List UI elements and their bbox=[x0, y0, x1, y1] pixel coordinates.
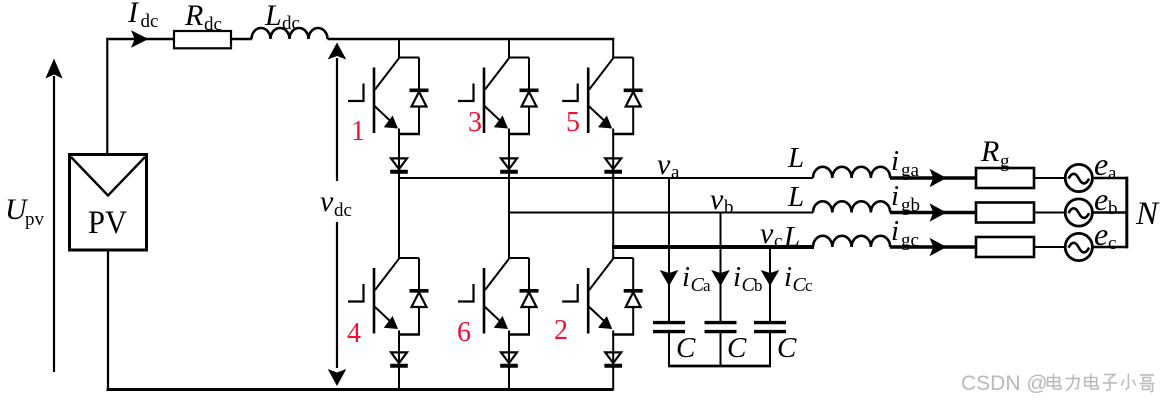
wire collector branch Q2 bbox=[612, 257, 633, 259]
wire phase a line bbox=[398, 177, 813, 179]
svg-text:PV: PV bbox=[88, 205, 127, 241]
wire collector drop Q1 bbox=[398, 38, 400, 58]
wire collector branch Q1 bbox=[398, 57, 419, 59]
wire emitter bar Q6 bbox=[508, 333, 530, 336]
wire collector branch Q5 bbox=[612, 57, 633, 59]
current arrow i_Cc bbox=[761, 270, 780, 286]
wire collector drop Q5 bbox=[612, 38, 614, 58]
wire capacitor Cc dropper bbox=[769, 247, 771, 321]
diode DS4 (series) bbox=[390, 352, 408, 365]
capacitor Ca bbox=[653, 323, 685, 366]
diode DS2 (series) bbox=[604, 352, 622, 365]
v_dc arrow upper bbox=[336, 58, 338, 181]
current arrow I_dc bbox=[131, 30, 149, 48]
svg-text:i: i bbox=[891, 180, 899, 212]
svg-text:R: R bbox=[184, 0, 203, 32]
svg-text:R: R bbox=[980, 135, 999, 168]
inductor L phase b bbox=[813, 201, 890, 212]
svg-text:dc: dc bbox=[141, 11, 159, 32]
wire neutral bus bbox=[1125, 177, 1128, 248]
PV module box bbox=[70, 155, 147, 251]
svg-text:v: v bbox=[760, 217, 774, 250]
diode D4 (anti-parallel) bbox=[410, 258, 429, 335]
transistor Q1 bbox=[348, 58, 399, 133]
wire collector drop Q2 bbox=[612, 257, 614, 258]
resistor R_dc bbox=[174, 31, 231, 48]
svg-text:i: i bbox=[891, 215, 899, 247]
wire phase column c lower bbox=[612, 331, 614, 391]
wire PV top to rail bbox=[106, 39, 108, 156]
wire emitter bar Q4 bbox=[398, 333, 420, 336]
resistor R_g phase c bbox=[976, 237, 1034, 257]
current arrow i_gb bbox=[930, 203, 947, 222]
wire phase column c upper bbox=[612, 129, 614, 259]
svg-text:e: e bbox=[1094, 146, 1108, 182]
wire phase b line bbox=[508, 212, 813, 214]
resistor R_g phase a bbox=[976, 168, 1034, 188]
U_pv arrow bbox=[53, 76, 55, 372]
svg-text:a: a bbox=[1108, 163, 1117, 184]
svg-text:dc: dc bbox=[282, 13, 300, 34]
wire source to neutral bus phase c bbox=[1092, 246, 1128, 248]
wire phase column b lower bbox=[508, 331, 510, 391]
wire top rail segment 1 bbox=[106, 38, 174, 40]
wire phase column b upper bbox=[508, 129, 510, 259]
transistor Q3 bbox=[458, 58, 509, 133]
capacitor Cb bbox=[705, 323, 737, 366]
svg-text:L: L bbox=[787, 142, 804, 174]
wire inductor to resistor phase c bbox=[890, 245, 976, 248]
wire phase column a lower bbox=[398, 331, 400, 391]
diode D5 (anti-parallel) bbox=[624, 58, 643, 135]
svg-text:pv: pv bbox=[25, 209, 45, 230]
svg-text:6: 6 bbox=[457, 317, 471, 348]
svg-text:C: C bbox=[777, 332, 797, 364]
current arrow i_gc bbox=[930, 238, 947, 257]
wire collector drop Q4 bbox=[398, 257, 400, 258]
svg-text:c: c bbox=[805, 276, 813, 295]
ac source e_a bbox=[1065, 164, 1092, 191]
inductor L phase c bbox=[813, 236, 890, 247]
svg-text:i: i bbox=[733, 261, 741, 293]
svg-text:ga: ga bbox=[901, 160, 920, 181]
svg-text:L: L bbox=[783, 221, 800, 253]
svg-text:a: a bbox=[671, 162, 680, 183]
wire inductor to resistor phase a bbox=[890, 176, 976, 179]
diode D2 (anti-parallel) bbox=[624, 258, 643, 335]
svg-text:N: N bbox=[1135, 196, 1160, 232]
svg-text:CSDN @: CSDN @ bbox=[961, 372, 1048, 395]
wire collector branch Q3 bbox=[508, 57, 529, 59]
diode DS1 (series) bbox=[390, 158, 408, 171]
transistor Q2 bbox=[562, 259, 613, 334]
svg-text:1: 1 bbox=[351, 116, 365, 147]
svg-text:b: b bbox=[754, 276, 763, 295]
current arrow i_Cb bbox=[711, 270, 730, 286]
diode D6 (anti-parallel) bbox=[520, 258, 539, 335]
diode DS6 (series) bbox=[500, 352, 518, 365]
resistor R_g phase b bbox=[976, 203, 1034, 223]
svg-text:L: L bbox=[787, 181, 804, 213]
wire top rail segment 2 bbox=[231, 38, 252, 40]
diode D3 (anti-parallel) bbox=[520, 58, 539, 135]
svg-text:c: c bbox=[774, 231, 782, 252]
wire phase c line bbox=[612, 245, 814, 249]
wire bottom rail bbox=[107, 388, 614, 391]
ac source e_c bbox=[1065, 233, 1092, 260]
wire collector branch Q6 bbox=[508, 257, 529, 259]
wire source to neutral bus phase b bbox=[1092, 211, 1128, 213]
wire resistor to source phase c bbox=[1034, 246, 1066, 248]
svg-text:i: i bbox=[682, 261, 690, 293]
wire top rail segment 3 bbox=[328, 38, 615, 40]
inductor L_dc bbox=[252, 28, 328, 39]
ac source e_b bbox=[1065, 199, 1092, 226]
transistor Q5 bbox=[562, 58, 613, 133]
v_dc arrow lower bbox=[336, 222, 338, 368]
diode DS3 (series) bbox=[500, 158, 518, 171]
svg-text:dc: dc bbox=[204, 14, 222, 35]
svg-text:dc: dc bbox=[334, 200, 352, 221]
svg-text:gc: gc bbox=[901, 230, 919, 251]
wire inductor to resistor phase b bbox=[890, 211, 976, 214]
wire emitter bar Q1 bbox=[398, 133, 420, 136]
svg-text:3: 3 bbox=[468, 107, 482, 138]
svg-text:4: 4 bbox=[347, 318, 361, 349]
diode DS5 (series) bbox=[604, 158, 622, 171]
svg-text:i: i bbox=[891, 145, 899, 177]
wire collector branch Q4 bbox=[398, 257, 419, 259]
svg-text:b: b bbox=[724, 197, 734, 218]
svg-text:b: b bbox=[1108, 198, 1118, 219]
diode D1 (anti-parallel) bbox=[410, 58, 429, 135]
current arrow i_ga bbox=[930, 169, 947, 188]
wire source to neutral bus phase a bbox=[1092, 177, 1128, 179]
wire resistor to source phase b bbox=[1034, 212, 1066, 214]
wire phase column a upper bbox=[398, 129, 400, 259]
svg-text:C: C bbox=[676, 332, 696, 364]
wire collector drop Q6 bbox=[508, 257, 510, 258]
transistor Q6 bbox=[458, 259, 509, 334]
transistor Q4 bbox=[348, 259, 399, 334]
watermark CJK glyphs bbox=[1048, 374, 1155, 393]
svg-text:C: C bbox=[727, 332, 747, 364]
svg-text:gb: gb bbox=[901, 195, 920, 216]
svg-text:2: 2 bbox=[554, 315, 568, 346]
wire emitter bar Q2 bbox=[612, 333, 634, 336]
current arrow i_Ca bbox=[660, 270, 679, 286]
capacitor Cc bbox=[754, 323, 786, 366]
svg-text:v: v bbox=[657, 148, 671, 181]
svg-text:i: i bbox=[784, 261, 792, 293]
wire emitter bar Q5 bbox=[612, 133, 634, 136]
PV chevron bbox=[71, 157, 145, 196]
svg-text:a: a bbox=[703, 276, 711, 295]
wire emitter bar Q3 bbox=[508, 133, 530, 136]
wire capacitor Ca dropper bbox=[668, 178, 670, 321]
svg-text:v: v bbox=[320, 185, 334, 218]
wire PV bottom bbox=[107, 250, 109, 390]
svg-text:L: L bbox=[264, 0, 282, 32]
wire capacitor neutral bar bbox=[668, 365, 771, 368]
wire collector drop Q3 bbox=[508, 38, 510, 58]
wire capacitor Cb dropper bbox=[720, 213, 722, 322]
svg-text:5: 5 bbox=[566, 107, 580, 138]
svg-text:v: v bbox=[710, 183, 724, 216]
inductor L phase a bbox=[813, 167, 890, 178]
wire resistor to source phase a bbox=[1034, 177, 1066, 179]
svg-text:c: c bbox=[1108, 233, 1116, 254]
